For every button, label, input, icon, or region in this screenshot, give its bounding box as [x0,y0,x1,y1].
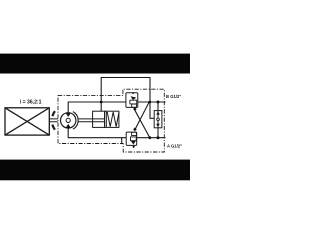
junction dots [100,101,160,140]
brake piston box [93,111,105,127]
check block tall rectangle [154,111,162,128]
wire: drain stub to enclosure bottom [121,138,123,144]
enclosure dash-dot boundary [58,89,164,152]
coupling (arc jaw segments) [52,111,55,116]
wire: motor top line / B-line y=102 [68,102,165,113]
bottom black bar [0,160,190,181]
gearbox housing rectangle with X [5,108,49,135]
relief valve RV1 (upper) [126,92,138,111]
wire: crossing diagonal upper-to-A [135,110,150,138]
svg-text:A G1/2": A G1/2" [167,143,182,148]
shaft gearbox-coupling [49,119,58,122]
wire: check block vertical through tall rect [157,102,159,138]
hydraulic motor circle [60,113,75,128]
wire: motor bottom to A-line y=137.7 [68,128,165,138]
relief valve RV2 (lower) [126,128,137,149]
wire: brake release drop [100,102,102,111]
brake spring box [105,111,119,127]
brake coupling arc right of motor [73,112,78,130]
top black bar [0,54,190,74]
svg-text:i = 36,2:1: i = 36,2:1 [20,99,42,105]
svg-text:B G1/2": B G1/2" [166,94,181,99]
wire: loop from brake junction over the top to check block [101,78,154,119]
wire: crossing diagonal lower-to-B [135,102,149,130]
shaft motor-brake (double line) [78,119,92,122]
